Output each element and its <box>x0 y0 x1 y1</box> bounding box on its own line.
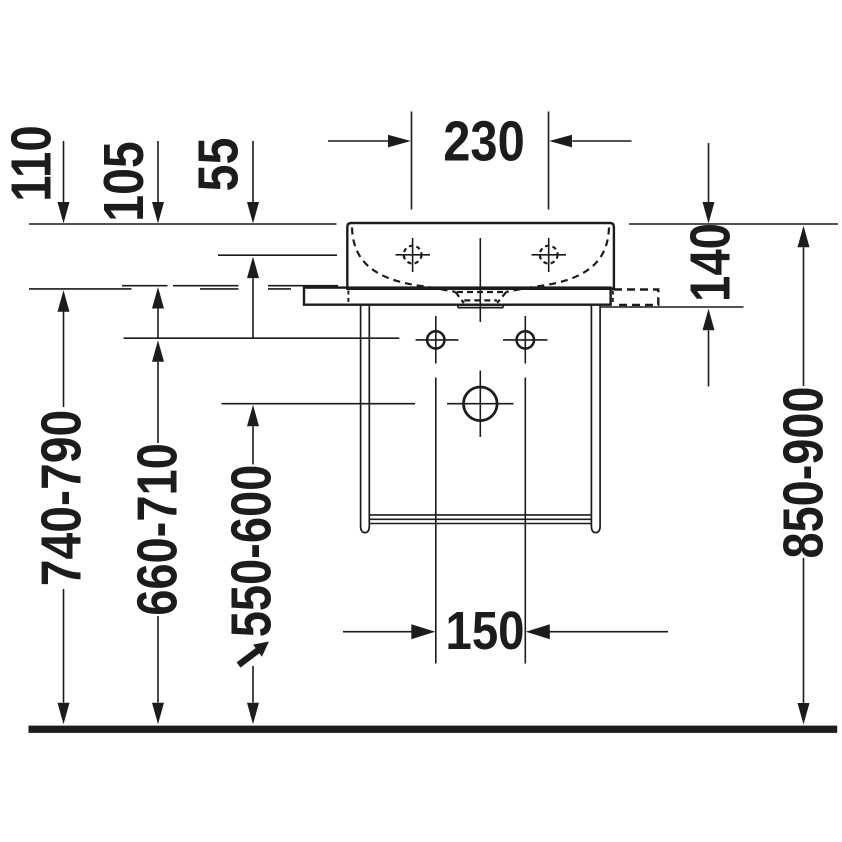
svg-text:850-900: 850-900 <box>772 387 836 559</box>
svg-text:140: 140 <box>679 223 743 302</box>
svg-text:740-790: 740-790 <box>30 410 94 587</box>
svg-text:550-600: 550-600 <box>220 465 284 638</box>
svg-text:55: 55 <box>187 138 251 192</box>
svg-text:230: 230 <box>443 110 525 174</box>
svg-text:150: 150 <box>446 601 525 661</box>
svg-text:660-710: 660-710 <box>126 443 190 616</box>
svg-text:105: 105 <box>92 141 156 222</box>
svg-text:110: 110 <box>0 125 64 202</box>
